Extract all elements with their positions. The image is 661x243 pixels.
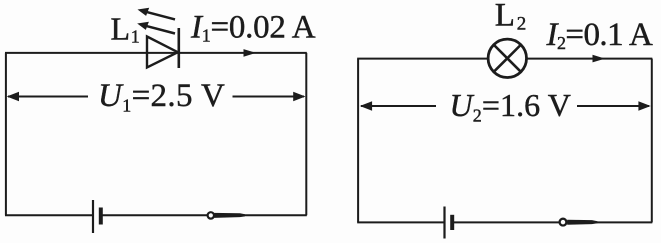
svg-text:U2=1.6 V: U2=1.6 V — [450, 87, 572, 126]
switch S1 blade — [214, 213, 245, 218]
switch S2 pivot — [560, 219, 567, 226]
voltage arrow U2 left head — [360, 101, 372, 111]
wire: right circuit left side — [357, 59, 359, 223]
switch S2 blade — [567, 220, 597, 225]
voltage arrow U1 right head — [293, 92, 305, 102]
lamp L2 circle — [488, 39, 526, 77]
wire: right circuit top — [357, 58, 652, 60]
svg-text:I2=0.1 A: I2=0.1 A — [546, 17, 653, 53]
wire: right circuit right side — [651, 59, 653, 223]
LED L1 cathode bar — [178, 28, 181, 68]
LED L1 light arrow 2 — [137, 22, 175, 34]
voltage arrow U2 right head — [638, 101, 650, 111]
lamp L2 cross stroke 2 — [494, 45, 521, 72]
svg-text:I1=0.02 A: I1=0.02 A — [190, 9, 316, 45]
lamp L2 cross stroke 1 — [494, 45, 521, 72]
battery B1 long plate — [92, 200, 94, 233]
svg-text:L1: L1 — [111, 10, 140, 46]
wire: right circuit bottom (left of battery) — [357, 221, 445, 223]
svg-text:U1=2.5 V: U1=2.5 V — [98, 78, 225, 116]
voltage arrow U2 left segment — [361, 105, 436, 107]
wire: left circuit bottom (right of battery) — [102, 214, 307, 216]
wire: left circuit top — [5, 52, 307, 54]
current arrow I2 — [593, 55, 606, 63]
voltage arrow U1 right segment — [233, 96, 305, 98]
voltage arrow U2 right segment — [577, 105, 649, 107]
voltage arrow U1 left head — [7, 92, 19, 102]
battery B2 long plate — [443, 207, 445, 239]
voltage arrow U1 left segment — [8, 96, 88, 98]
wire: left circuit bottom (left of battery) — [5, 214, 92, 216]
switch S1 pivot — [208, 212, 214, 218]
battery B1 short plate — [99, 208, 103, 225]
LED L1 light arrow 1 — [138, 8, 176, 20]
wire: right circuit bottom (right of battery) — [453, 221, 652, 223]
wire: left circuit left side — [5, 53, 7, 215]
battery B2 short plate — [450, 215, 454, 230]
wire: left circuit right side — [305, 53, 307, 215]
LED L1 triangle — [147, 37, 178, 68]
svg-text:L2: L2 — [495, 0, 526, 35]
current arrow I1 — [244, 49, 257, 57]
